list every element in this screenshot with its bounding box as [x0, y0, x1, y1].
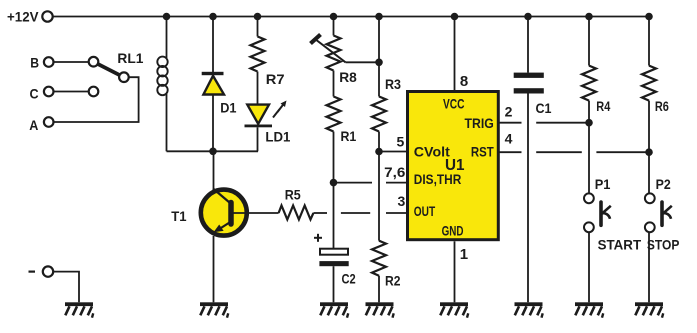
op-amp U1 (555 timer IC) [408, 92, 499, 240]
svg-text:1: 1 [460, 246, 468, 263]
node rail R6 [645, 13, 653, 21]
diode D1 [202, 72, 224, 75]
svg-text:2: 2 [505, 104, 513, 120]
ground R2 [366, 302, 394, 317]
LED LD1 [247, 105, 269, 124]
svg-text:OUT: OUT [414, 203, 436, 219]
wire common to A [54, 77, 139, 122]
svg-text:R7: R7 [266, 71, 285, 87]
svg-text:R6: R6 [655, 98, 669, 114]
svg-text:D1: D1 [220, 100, 236, 116]
wire: pin5 [379, 151, 408, 153]
wire: T1 emitter [213, 236, 215, 302]
wire: bottom rail coil-D1-LD1 [167, 150, 259, 152]
ground C2 [320, 302, 348, 317]
terminal minus [29, 271, 36, 273]
svg-text:START: START [598, 237, 642, 253]
resistor R6 [642, 66, 656, 101]
wire: coil column bottom [166, 94, 168, 151]
resistor R2 [372, 241, 386, 276]
wire: R4 column top [588, 17, 590, 66]
svg-text:R1: R1 [341, 128, 357, 144]
wire: R3 column top [378, 17, 380, 97]
node rail C1 [524, 13, 532, 21]
node RST/R6/P2 [645, 148, 653, 156]
wire: R6 column top [648, 17, 650, 66]
LED arrow [273, 104, 284, 118]
svg-text:4: 4 [505, 130, 513, 146]
relay contact A terminal [44, 117, 54, 127]
terminal +12V [42, 11, 52, 21]
svg-text:+12V: +12V [7, 9, 39, 25]
wire: C1 bottom [527, 94, 529, 303]
svg-text:B: B [30, 55, 39, 71]
wire: R6 to node [648, 101, 650, 153]
wire: R5 to OUT [313, 212, 327, 214]
svg-text:GND: GND [442, 222, 464, 238]
svg-text:5: 5 [397, 133, 405, 149]
wire: R8 wiper to R3 [346, 61, 380, 63]
wire C [53, 91, 89, 93]
trimmer R8 [333, 17, 335, 36]
relay common contact [119, 72, 129, 82]
wire: R4 to node [588, 101, 590, 123]
svg-text:R4: R4 [596, 98, 610, 114]
wire: T1 collector [213, 151, 215, 190]
wire: LD1 bottom [257, 127, 259, 151]
svg-text:DIS,THR: DIS,THR [414, 171, 462, 187]
wire: RST pin 4 [499, 151, 522, 153]
wire: P2 bottom [648, 232, 650, 302]
relay coil RL1 [157, 57, 167, 96]
wire: R3 to node [378, 132, 380, 152]
svg-text:STOP: STOP [647, 237, 680, 253]
relay contact B fixed [89, 57, 99, 67]
relay contact C fixed [89, 87, 99, 97]
capacitor C2 [314, 234, 322, 242]
wire: TRIG pin 2 [499, 122, 522, 124]
svg-text:A: A [29, 117, 38, 133]
svg-text:R3: R3 [385, 76, 401, 92]
ground C1 [515, 302, 543, 317]
svg-text:R5: R5 [285, 187, 301, 203]
node rail coil [163, 13, 171, 21]
svg-text:RST: RST [471, 143, 494, 159]
node TRIG/R4/P1 [585, 119, 593, 127]
node rail R7 [254, 13, 262, 21]
wire: pin 1 [454, 241, 456, 302]
wire: DIS,THR pin 7,6 [334, 182, 373, 184]
capacitor C1 [514, 73, 544, 78]
wire: D1 column top [212, 17, 214, 74]
ground P2 [635, 302, 663, 317]
node rail R3 [375, 13, 383, 21]
wire: R7 to LD1 [257, 72, 259, 106]
ground T1 [200, 302, 228, 317]
svg-text:TRIG: TRIG [465, 115, 494, 131]
node R8/R3 [375, 59, 383, 67]
svg-text:C: C [30, 86, 39, 102]
wire: R2 bottom [378, 276, 380, 303]
ground pin1 [440, 302, 468, 317]
svg-text:P1: P1 [595, 176, 611, 192]
relay contact B terminal [44, 57, 54, 67]
svg-text:P2: P2 [656, 176, 671, 192]
svg-text:VCC: VCC [443, 96, 465, 112]
wire: pin 8 [454, 17, 456, 92]
wire: node to P1 [588, 123, 590, 194]
wire: minus to ground [53, 272, 79, 303]
node rail pin8 [451, 13, 459, 21]
wire: node to P2 [648, 152, 650, 193]
wire: coil column top [166, 17, 168, 59]
svg-text:LD1: LD1 [265, 129, 290, 145]
node rail D1 [209, 13, 217, 21]
svg-text:8: 8 [460, 73, 468, 90]
node R3/R2/pin5 [375, 148, 383, 156]
node rail R8 [330, 13, 338, 21]
wire: D1 column bottom [212, 95, 214, 152]
relay contact C terminal [44, 87, 54, 97]
resistor R7 [251, 37, 265, 72]
ground P1 [575, 302, 603, 317]
node R1/C2/DIS [330, 179, 338, 187]
svg-text:R2: R2 [385, 273, 401, 289]
wire B [53, 61, 89, 63]
wire: +12V top rail [53, 16, 650, 18]
wire: C2 bottom [333, 266, 335, 302]
svg-text:7,6: 7,6 [384, 164, 405, 180]
relay switch arm RL1 [98, 64, 120, 75]
svg-text:R8: R8 [339, 69, 357, 85]
resistor R4 [582, 66, 596, 101]
wire: C1 column top [527, 17, 529, 73]
wire: R7 column top [257, 17, 259, 37]
wire: R3/R2 column [378, 152, 380, 241]
ground minus [65, 302, 93, 317]
svg-text:RL1: RL1 [117, 50, 143, 66]
wire: R8 to R1 [333, 71, 335, 97]
node bottom rail T1 [209, 148, 217, 156]
resistor R3 [372, 97, 386, 132]
wire: R1 to C2 [333, 132, 335, 249]
svg-text:T1: T1 [171, 208, 186, 224]
svg-text:C1: C1 [536, 100, 552, 116]
svg-text:C2: C2 [342, 271, 356, 287]
resistor R1 [327, 97, 341, 132]
wire: P1 bottom [588, 232, 590, 302]
transistor T1 [201, 190, 247, 236]
resistor R5 [279, 206, 314, 220]
node rail R4 [585, 13, 593, 21]
svg-text:3: 3 [398, 193, 406, 209]
wire: OUT pin 3 [341, 212, 370, 214]
